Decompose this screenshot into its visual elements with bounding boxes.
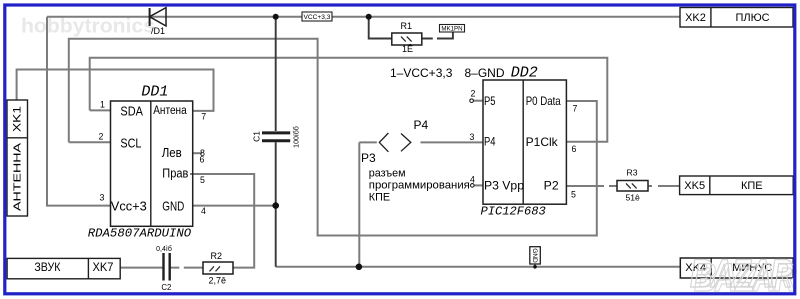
svg-text:6: 6 [572, 144, 577, 154]
svg-text:3: 3 [470, 132, 475, 142]
svg-text:2,7ê: 2,7ê [209, 275, 227, 285]
svg-text:1Ê: 1Ê [402, 44, 413, 54]
svg-text:DD1: DD1 [141, 84, 168, 101]
svg-text:P3: P3 [361, 151, 376, 165]
svg-text:RDA5807ARDUINO: RDA5807ARDUINO [88, 226, 192, 240]
svg-text:ЗВУК: ЗВУК [34, 262, 60, 274]
svg-text:Прав: Прав [162, 167, 188, 181]
svg-text:Антена: Антена [153, 105, 187, 117]
svg-text:GND: GND [162, 199, 184, 214]
svg-text:hobbytronics: hobbytronics [21, 16, 155, 38]
svg-text:51ê: 51ê [626, 193, 641, 203]
svg-text:XK5: XK5 [684, 180, 705, 192]
svg-text:4: 4 [470, 174, 475, 184]
svg-text:программирования: программирования [369, 179, 470, 191]
svg-text:0,4ìб: 0,4ìб [156, 245, 172, 253]
svg-text:7: 7 [573, 103, 578, 113]
svg-text:P4: P4 [484, 136, 496, 149]
svg-text:C2: C2 [161, 283, 171, 292]
svg-text:P0 Data: P0 Data [526, 95, 561, 108]
svg-text:2: 2 [99, 132, 104, 142]
svg-text:ПЛЮС: ПЛЮС [735, 12, 769, 24]
svg-text:GND: GND [531, 248, 538, 263]
svg-text:VCC+3,3: VCC+3,3 [304, 14, 331, 21]
svg-text:5: 5 [571, 189, 576, 199]
svg-text:/D1: /D1 [151, 26, 165, 36]
svg-text:DD2: DD2 [511, 64, 538, 81]
svg-text:XK7: XK7 [93, 262, 114, 274]
svg-text:1–VCC+3,3: 1–VCC+3,3 [390, 66, 453, 80]
svg-text:SDA: SDA [120, 104, 143, 119]
svg-text:PIC12F683: PIC12F683 [481, 205, 546, 219]
svg-text:SCL: SCL [120, 136, 141, 151]
svg-text:P5: P5 [484, 95, 496, 108]
svg-text:4: 4 [201, 206, 206, 216]
svg-text:XK1: XK1 [12, 106, 24, 132]
svg-text:3: 3 [100, 193, 105, 203]
svg-text:P3 Vpp: P3 Vpp [484, 180, 525, 193]
svg-text:P2: P2 [544, 180, 559, 193]
svg-text:C1: C1 [251, 131, 261, 142]
svg-text:разъем: разъем [369, 167, 406, 179]
svg-text:R2: R2 [211, 251, 223, 261]
svg-text:1: 1 [100, 100, 105, 110]
svg-text:5: 5 [200, 175, 205, 185]
svg-text:P1Clk: P1Clk [526, 136, 558, 149]
svg-text:8–GND: 8–GND [465, 66, 505, 80]
svg-text:100íбб: 100íбб [293, 126, 301, 148]
svg-text:R1: R1 [401, 21, 413, 31]
svg-text:XK2: XK2 [685, 12, 706, 24]
svg-text:P4: P4 [414, 118, 429, 132]
svg-text:Лев: Лев [162, 146, 182, 160]
svg-text:АНТЕННА: АНТЕННА [13, 143, 24, 211]
svg-text:MK1PN: MK1PN [441, 26, 462, 33]
svg-text:6: 6 [200, 154, 205, 164]
svg-text:R3: R3 [627, 168, 638, 178]
svg-text:2: 2 [471, 89, 476, 99]
svg-text:7: 7 [201, 112, 206, 122]
svg-text:КПЕ: КПЕ [741, 180, 763, 192]
svg-text:BAZAR: BAZAR [690, 252, 793, 296]
svg-text:КПЕ: КПЕ [369, 191, 390, 203]
svg-text:Vcc+3: Vcc+3 [111, 199, 147, 214]
